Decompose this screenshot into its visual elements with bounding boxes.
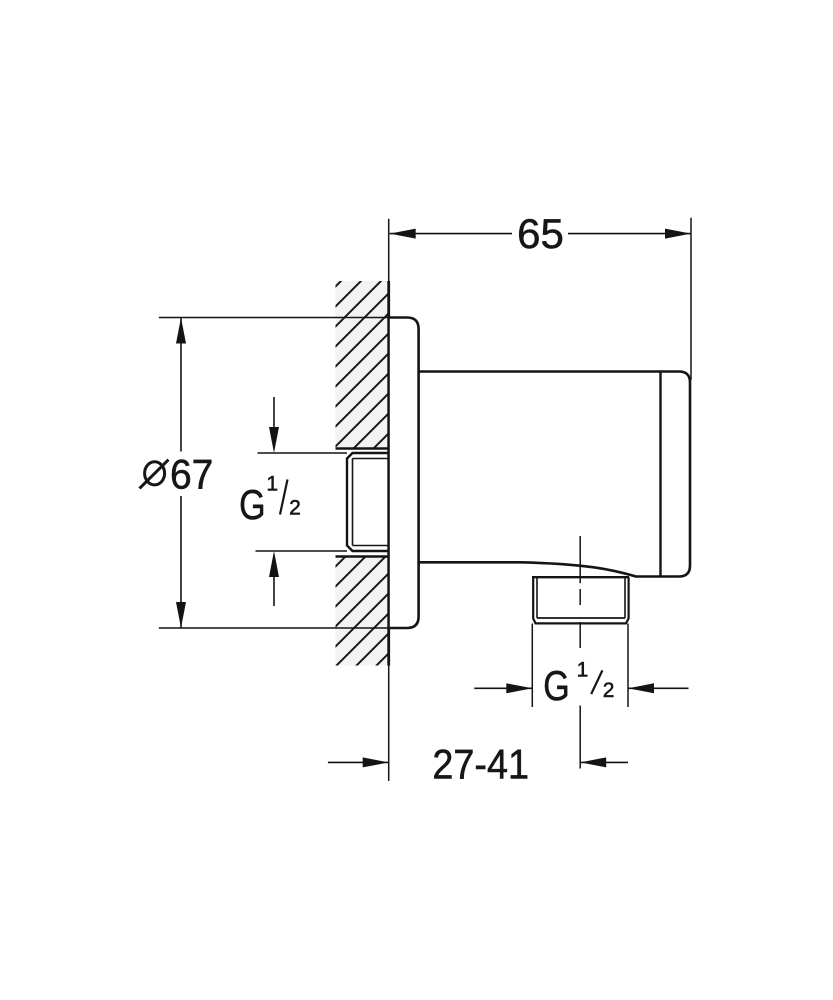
cap ring inner line bbox=[659, 372, 661, 577]
outlet nipple bbox=[532, 577, 629, 623]
extension line below outlet right bbox=[627, 624, 629, 708]
inlet dim arrow up bbox=[273, 559, 275, 606]
dimension text dia67 bbox=[140, 450, 214, 498]
dimension 27-41 right line + arrow bbox=[580, 761, 628, 763]
flange top extension line (for dia 67) bbox=[159, 317, 390, 319]
dimension 65 line right segment bbox=[568, 233, 691, 235]
body outline bbox=[419, 372, 690, 577]
wall hatch lower band bbox=[336, 557, 389, 666]
svg-text:27-41: 27-41 bbox=[432, 742, 529, 788]
svg-text:67: 67 bbox=[170, 450, 213, 498]
svg-text:1: 1 bbox=[266, 472, 278, 495]
svg-text:G: G bbox=[239, 482, 265, 529]
inlet dim upper extension line bbox=[258, 452, 348, 454]
inlet dim lower extension line bbox=[256, 550, 348, 552]
arrow right of 65 bbox=[665, 229, 691, 239]
extension line right of cap (for 65 dim) bbox=[690, 218, 692, 380]
arrow top of dia67 bbox=[176, 318, 186, 344]
svg-text:G: G bbox=[543, 663, 569, 710]
extension line below outlet left bbox=[531, 624, 533, 708]
svg-text:2: 2 bbox=[603, 679, 615, 702]
wall extension line above (for 65 dim) bbox=[388, 219, 390, 281]
outlet centerline bbox=[579, 536, 581, 769]
outlet thread label G 1/2 bbox=[543, 659, 614, 710]
svg-text:65: 65 bbox=[517, 210, 564, 257]
dimension dia67 line lower segment bbox=[180, 496, 182, 628]
arrow left of 65 bbox=[390, 229, 416, 239]
concealed pipe lower line bbox=[336, 555, 390, 558]
wall hatch upper band bbox=[336, 281, 389, 449]
outlet thread dim G 1/2 left line + arrow bbox=[474, 687, 532, 689]
svg-text:2: 2 bbox=[289, 496, 301, 519]
inlet thread label G 1/2 bbox=[239, 472, 301, 529]
outlet thread dim G 1/2 right line + arrow bbox=[628, 687, 689, 689]
dimension 27-41 left line + arrow bbox=[328, 761, 389, 763]
arrow bottom of dia67 bbox=[176, 602, 186, 628]
concealed pipe upper line bbox=[336, 447, 390, 450]
dimension dia67 line upper segment bbox=[180, 318, 182, 452]
flange bottom extension line (for dia 67) bbox=[159, 627, 390, 629]
dimension 65 line left segment bbox=[390, 233, 512, 235]
wall surface line bbox=[387, 281, 390, 666]
inlet nipple behind wall bbox=[347, 453, 390, 551]
wall extension line below (for 27-41 dim) bbox=[388, 666, 390, 782]
flange (wall rosette) bbox=[390, 318, 419, 629]
svg-text:1: 1 bbox=[577, 659, 589, 682]
inlet dim arrow down bbox=[273, 397, 275, 445]
